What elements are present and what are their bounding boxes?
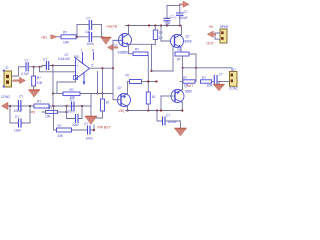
wire (212, 81, 214, 83)
svg-text:10R: 10R (63, 41, 70, 45)
capacitor C13 (72, 115, 79, 128)
wire opamp lower pin (57, 79, 76, 94)
capacitor C11 in row (68, 98, 75, 113)
wire (28, 66, 46, 67)
wire (166, 6, 168, 19)
wire J1 pin1 (12, 67, 26, 76)
junction (81, 105, 83, 107)
power terminal arrow (108, 45, 117, 51)
wire R11 bottom (96, 111, 103, 118)
wire J1 pin2 (12, 80, 15, 82)
svg-text:SS8550: SS8550 (118, 50, 130, 54)
svg-text:J?: J? (233, 68, 237, 72)
svg-text:1uF: 1uF (165, 22, 171, 26)
wire +ve rail (126, 25, 182, 27)
resistor R11 (101, 99, 111, 111)
svg-text:J?: J? (5, 66, 9, 70)
junction (147, 80, 149, 82)
resistor R13 (57, 124, 72, 138)
wire stub (97, 72, 99, 94)
svg-text:+ve(+B: +ve(+B (106, 24, 118, 28)
wire (57, 36, 61, 38)
wire (217, 81, 229, 83)
resistor R14 (42, 107, 67, 119)
resistor R7 (126, 74, 142, 84)
wire (165, 121, 181, 128)
junction (38, 66, 40, 68)
capacitor C8 (43, 57, 49, 69)
wire Q2 base (113, 99, 121, 101)
svg-text:CON2: CON2 (1, 95, 10, 99)
wire bottom feedback row (72, 125, 95, 130)
wire (180, 81, 183, 83)
svg-text:CON2: CON2 (229, 86, 238, 90)
ground (175, 128, 186, 136)
capacitor C12 (84, 122, 93, 140)
svg-text:+B: +B (209, 25, 214, 29)
wire R11 top (102, 94, 104, 100)
junction (156, 109, 158, 111)
wire cap loop1 (10, 106, 30, 123)
svg-text:R?: R? (202, 76, 206, 80)
junction (155, 80, 157, 82)
svg-text:Q?: Q? (184, 84, 188, 88)
wire bottom row (10, 105, 91, 107)
svg-text:C?: C? (184, 10, 188, 14)
svg-text:100n: 100n (87, 42, 94, 46)
wire (152, 70, 174, 72)
svg-text:+B1: +B1 (41, 35, 47, 39)
resistor R10 (63, 88, 80, 100)
wire R2 top (154, 26, 156, 31)
wire (80, 93, 113, 95)
connector J3 (220, 25, 229, 43)
wire Q1 collector (128, 26, 130, 35)
wire (161, 26, 175, 42)
svg-text:OUT: OUT (207, 41, 214, 45)
junction (182, 67, 184, 69)
transistor Q4 (171, 84, 192, 103)
svg-text:C?: C? (70, 98, 74, 102)
junction (101, 67, 103, 69)
terminal arrow (207, 25, 216, 45)
wire (166, 22, 168, 26)
svg-text:SPKR: SPKR (220, 25, 229, 29)
svg-text:R?: R? (70, 88, 74, 92)
resistor R1 (61, 30, 76, 44)
wire (142, 81, 157, 83)
capacitor C5 (214, 73, 223, 84)
junction (101, 92, 103, 94)
svg-text:8050: 8050 (185, 39, 192, 43)
wire output column (102, 68, 104, 93)
wire (167, 5, 180, 7)
junction (172, 40, 174, 42)
wire base column (112, 40, 114, 99)
wire Q2 top (127, 82, 129, 94)
svg-text:C?: C? (19, 94, 23, 98)
wire (92, 24, 102, 26)
junction (112, 67, 114, 69)
junction (148, 24, 150, 26)
svg-text:10R: 10R (207, 83, 214, 87)
wire (151, 44, 153, 71)
svg-text:10K: 10K (58, 134, 65, 138)
wire R8 bottom (147, 104, 149, 111)
junction (33, 66, 35, 68)
junction (97, 93, 99, 95)
wire (33, 86, 35, 90)
wire opamp minus input (40, 67, 76, 72)
wire Q3 collector (181, 26, 183, 35)
svg-text:R?: R? (183, 76, 187, 80)
wire ground rail (126, 110, 181, 112)
junction (65, 111, 67, 113)
wire (129, 44, 134, 53)
connector J1 (1, 66, 12, 99)
wire (92, 36, 102, 38)
junction (52, 105, 54, 107)
junction (65, 105, 67, 107)
svg-text:10K: 10K (45, 115, 52, 119)
wire Q3 emitter (180, 48, 182, 53)
transistor Q2 (118, 86, 131, 107)
svg-text:8550: 8550 (185, 89, 192, 93)
junction (166, 24, 168, 26)
ground (101, 37, 110, 44)
junction (127, 24, 129, 26)
svg-text:10uF: 10uF (14, 128, 21, 132)
svg-text:CA3140: CA3140 (58, 57, 70, 61)
svg-text:100n: 100n (68, 110, 75, 114)
junction (93, 129, 95, 131)
connector J2 (229, 68, 238, 91)
wire feedback column (52, 66, 54, 107)
wire (189, 54, 196, 82)
junction (29, 105, 31, 107)
wire (157, 111, 162, 122)
wire Q4 bottom (181, 102, 183, 110)
svg-text:7: 7 (81, 49, 83, 53)
wire (101, 25, 103, 37)
wire (182, 56, 184, 68)
port +B1 (41, 35, 57, 40)
svg-text:R?: R? (48, 107, 52, 111)
svg-text:B/D: B/D (74, 55, 80, 59)
svg-text:Q?: Q? (186, 35, 190, 39)
wire (33, 67, 35, 76)
capacitor C7 (21, 59, 29, 76)
resistor R8 (146, 92, 156, 104)
svg-text:R?: R? (135, 48, 139, 52)
capacitor C2 (87, 33, 94, 47)
svg-text:C?: C? (219, 73, 223, 77)
capacitor C1 (85, 17, 92, 35)
ground (86, 94, 97, 125)
junction (195, 67, 197, 69)
svg-text:8: 8 (92, 48, 94, 52)
svg-text:1R: 1R (177, 57, 182, 61)
wire (172, 41, 174, 71)
wire (76, 36, 88, 38)
resistor R9 (32, 76, 44, 86)
svg-text:10K: 10K (37, 81, 44, 85)
svg-text:-: - (77, 70, 78, 74)
svg-text:C?: C? (43, 57, 47, 61)
wire (160, 96, 162, 111)
resistor R3 (133, 48, 148, 56)
resistor R5 (183, 76, 195, 83)
wire (77, 24, 88, 26)
resistor R12 (29, 100, 49, 114)
junction (52, 92, 54, 94)
svg-text:-VE(: -VE( (118, 109, 126, 113)
svg-text:22uF: 22uF (72, 123, 79, 127)
op-amp U1 (58, 48, 94, 85)
resistor R2 (153, 30, 163, 40)
svg-text:C?: C? (15, 115, 19, 119)
svg-text:PW BVT: PW BVT (98, 125, 111, 129)
svg-text:C?: C? (166, 113, 170, 117)
ground (29, 90, 40, 97)
capacitor C9 (14, 94, 24, 113)
capacitor C6 (163, 113, 177, 125)
capacitor C10 (14, 115, 21, 133)
svg-text:+: + (77, 64, 79, 68)
svg-text:R?: R? (178, 48, 182, 52)
svg-text:C?: C? (87, 17, 91, 21)
wire J3 pins (215, 33, 220, 39)
wire Q4 base (161, 95, 175, 97)
wire feedback drop (54, 106, 57, 130)
svg-text:4.7uF: 4.7uF (21, 72, 29, 76)
transistor Q3 (171, 35, 192, 48)
junction (147, 109, 149, 111)
junction (154, 24, 156, 26)
capacitor C4 (175, 10, 188, 20)
ground (214, 82, 224, 91)
junction (52, 64, 54, 66)
svg-text:R?: R? (37, 100, 41, 104)
wire Q2 bottom (127, 107, 129, 111)
junction (160, 109, 162, 111)
junction (126, 109, 128, 111)
svg-text:R?: R? (126, 74, 130, 78)
node junction (76, 36, 78, 38)
svg-text:R?: R? (37, 76, 41, 80)
svg-text:R?: R? (58, 124, 62, 128)
wire (179, 4, 181, 13)
wire R3 right drop (147, 56, 149, 92)
capacitor C3 (164, 15, 175, 25)
resistor R4 (175, 48, 189, 61)
svg-text:+: + (175, 16, 177, 20)
wire (128, 81, 130, 83)
resistor R6 (201, 76, 214, 87)
power arrow (180, 3, 183, 5)
wire cap loop2 (67, 106, 83, 119)
terminal arrow left (2, 102, 11, 109)
svg-text:C?: C? (25, 59, 29, 63)
wire feedback resistor row (53, 93, 63, 95)
wire output (183, 68, 232, 74)
svg-text:100n: 100n (86, 136, 93, 140)
terminal arrow input (14, 77, 25, 83)
svg-text:R?: R? (63, 30, 67, 34)
wire R2 bottom (154, 40, 156, 45)
svg-text:C?: C? (84, 122, 88, 126)
junction (179, 24, 181, 26)
junction (150, 70, 152, 72)
junction (181, 109, 183, 111)
transistor Q1 (113, 34, 132, 55)
wire Q4 top (182, 68, 184, 90)
svg-text:Q?: Q? (118, 86, 122, 90)
wire (179, 15, 181, 25)
junction (160, 24, 162, 26)
wire opamp plus input (49, 65, 76, 67)
junction (9, 105, 11, 107)
svg-text:6: 6 (92, 64, 94, 68)
wire opamp output (90, 67, 114, 69)
wire Q1 emitter row (129, 43, 156, 45)
svg-text:100uF: 100uF (14, 109, 23, 113)
wire (76, 25, 78, 37)
